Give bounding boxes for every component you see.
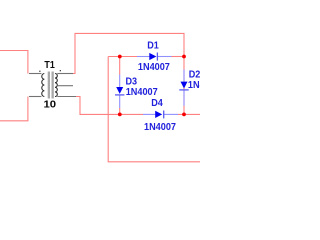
- svg-text:D2: D2: [189, 70, 200, 81]
- svg-text:1N4007: 1N4007: [144, 122, 176, 133]
- svg-text:10: 10: [44, 100, 57, 111]
- svg-text:1N4007: 1N4007: [138, 62, 170, 73]
- svg-text:D1: D1: [147, 41, 159, 52]
- svg-text:1N4007: 1N4007: [126, 87, 158, 98]
- svg-text:1N4007: 1N4007: [188, 80, 200, 91]
- svg-text:D4: D4: [151, 98, 163, 109]
- svg-text:D3: D3: [126, 77, 138, 88]
- svg-text:T1: T1: [44, 60, 55, 71]
